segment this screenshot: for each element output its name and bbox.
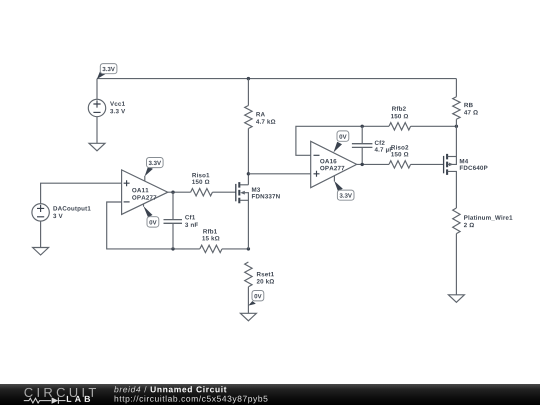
label Riso1 value bbox=[192, 173, 209, 184]
logo CIRCUIT text bbox=[24, 388, 96, 397]
wire Rset1 bottom lead bbox=[247, 287, 249, 314]
transistor M3 source link bbox=[240, 200, 249, 249]
label OA16 bbox=[320, 159, 344, 170]
transistor M3 channel bars bbox=[238, 182, 240, 203]
transistor M4 channel bars bbox=[446, 154, 448, 175]
wire Vcc1 bottom lead bbox=[96, 117, 98, 144]
label RA value bbox=[256, 112, 275, 124]
wire DACoutput1 top lead to OA11 + bbox=[41, 183, 122, 204]
node junction Rfb1-M3 source bbox=[247, 247, 250, 250]
voltage source DACoutput1 bbox=[32, 204, 49, 221]
node junction Cf2 top bbox=[361, 125, 364, 128]
voltage source Vcc1 bbox=[88, 99, 105, 116]
label OA11 bbox=[132, 188, 156, 200]
wire RA top lead bbox=[247, 79, 249, 106]
ground below Vcc1 bbox=[89, 143, 105, 151]
op-amp OA11 body bbox=[122, 170, 168, 215]
label DACoutput1 value bbox=[53, 206, 90, 218]
resistor Rfb2 bbox=[389, 123, 411, 130]
wire RB bottom lead bbox=[455, 119, 457, 156]
label Riso2 value bbox=[391, 145, 408, 156]
ground below Rset1 bbox=[240, 313, 256, 321]
op-amp OA16 minus input sign bbox=[314, 154, 320, 156]
wire OA16 output bbox=[357, 163, 389, 165]
wire Platinum_Wire1 bottom lead bbox=[455, 234, 457, 295]
label Vcc1 value bbox=[110, 102, 125, 114]
label M3 bbox=[252, 187, 280, 198]
label RB value bbox=[464, 103, 478, 115]
wire to OA16 + input bbox=[248, 173, 310, 175]
op-amp OA16 plus input sign bbox=[314, 171, 320, 177]
wire Rfb1 right lead bbox=[222, 248, 248, 250]
transistor M3 drain link bbox=[240, 184, 249, 186]
wire Riso2 to M4 gate bbox=[411, 163, 444, 165]
wire RA bottom lead bbox=[247, 129, 249, 185]
label Rfb2 value bbox=[391, 106, 408, 118]
node junction RB-Rfb2-M4 bbox=[455, 125, 458, 128]
node junction RA-M3-OA16+ bbox=[247, 172, 250, 175]
net flag 0V at OA11 V- bbox=[143, 204, 158, 227]
footer url line bbox=[115, 395, 268, 403]
wire RB top lead bbox=[455, 79, 457, 97]
capacitor Cf1 bbox=[164, 192, 183, 249]
transistor M4 gate plate bbox=[443, 156, 445, 173]
ground below DACoutput1 bbox=[33, 248, 49, 256]
wire Rfb2 right lead bbox=[411, 125, 457, 127]
net flag 0V at OA16 V+ bbox=[334, 131, 349, 153]
node junction OA11 output bbox=[171, 191, 174, 194]
op-amp OA16 body bbox=[311, 141, 357, 187]
resistor Riso1 bbox=[191, 189, 213, 196]
logo LAB text bbox=[67, 396, 90, 402]
label Cf2 value bbox=[375, 140, 393, 152]
node junction OA16 output bbox=[361, 163, 364, 166]
resistor RA bbox=[245, 106, 252, 129]
label Cf1 value bbox=[185, 215, 198, 227]
label Rset1 value bbox=[257, 272, 274, 284]
resistor Rfb1 bbox=[200, 245, 222, 252]
transistor M3 body arrow bbox=[240, 191, 248, 201]
transistor M4 body arrow bbox=[448, 157, 457, 167]
transistor M4 source link bbox=[448, 156, 457, 158]
resistor Riso2 bbox=[389, 161, 411, 168]
wire OA11 output bbox=[168, 191, 191, 193]
label Rfb1 value bbox=[202, 229, 219, 240]
label M4 bbox=[460, 159, 488, 170]
op-amp OA11 plus input sign bbox=[124, 180, 130, 186]
wire Riso1 to M3 gate bbox=[212, 191, 235, 193]
net flag 3.3V at OA11 V+ bbox=[145, 158, 164, 182]
node junction Cf1 bottom bbox=[171, 247, 174, 250]
op-amp OA11 minus input sign bbox=[124, 201, 130, 203]
transistor M4 drain link bbox=[448, 171, 457, 208]
wire top 3.3V rail bbox=[97, 78, 456, 80]
resistor Platinum_Wire1 bbox=[453, 208, 460, 234]
footer bar bbox=[0, 384, 540, 405]
transistor M3 gate plate bbox=[235, 184, 237, 201]
net flag 0V at Rset1 bbox=[248, 291, 263, 306]
capacitor Cf2 bbox=[352, 126, 373, 164]
ground below Platinum_Wire1 bbox=[448, 295, 464, 303]
node junction at RA top bbox=[247, 77, 250, 80]
wire OA16 inverting feedback loop bbox=[296, 126, 389, 155]
resistor RB bbox=[453, 97, 460, 120]
net flag 3.3V at Vcc1 bbox=[97, 64, 117, 79]
resistor Rset1 bbox=[245, 262, 252, 287]
wire Vcc1 top lead bbox=[96, 79, 98, 100]
footer title line bbox=[114, 386, 226, 392]
wire OA11 inverting input loop bbox=[107, 202, 200, 249]
net flag 3.3V at OA16 V- bbox=[334, 176, 354, 200]
logo schematic squiggle (resistor + diode) bbox=[24, 397, 66, 403]
label Platinum_Wire1 value bbox=[464, 215, 512, 227]
wire DACoutput1 bottom lead bbox=[40, 221, 42, 247]
